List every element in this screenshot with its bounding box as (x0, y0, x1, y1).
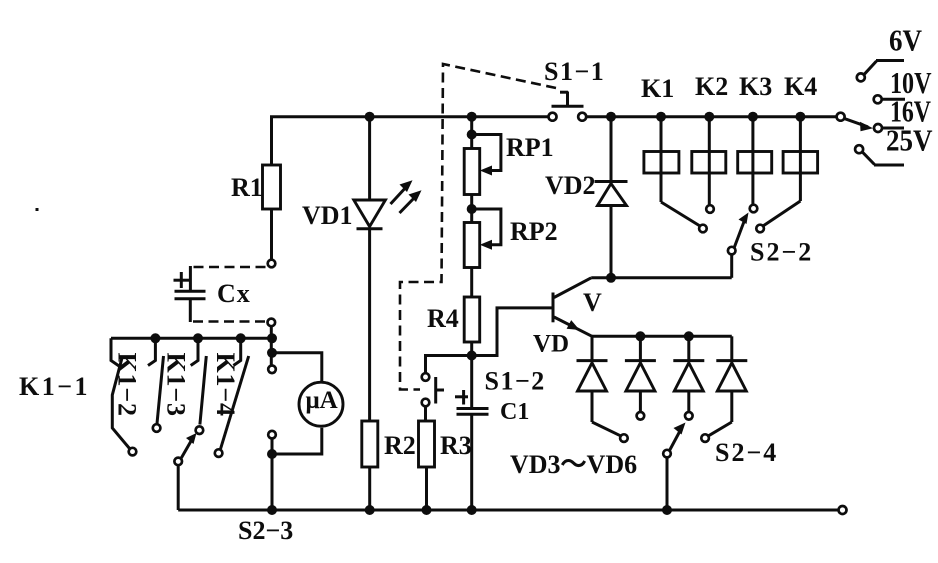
diode VD4 (625, 336, 656, 419)
svg-text:S1−2: S1−2 (485, 367, 546, 396)
svg-text:R2: R2 (384, 431, 416, 460)
svg-text:K4: K4 (784, 72, 817, 101)
switch S2-3 (174, 433, 196, 510)
node VD5 top (684, 331, 694, 341)
diode VD5 (673, 336, 704, 419)
node bottom R2 (365, 505, 375, 515)
svg-text:K1−3: K1−3 (162, 353, 191, 417)
wire collector net (591, 276, 732, 279)
node bank K1-4 (236, 333, 246, 343)
node bank K1-2 (150, 333, 160, 343)
svg-text:K3: K3 (739, 72, 772, 101)
relay coil K2 (692, 112, 726, 213)
node Cx lower terminal (268, 319, 276, 327)
resistor R3 (419, 421, 435, 510)
meter uA (272, 353, 343, 454)
transistor V (553, 278, 592, 337)
resistor R2 (362, 421, 378, 510)
wire Cx stub top (189, 266, 192, 291)
svg-text:S2−2: S2−2 (750, 238, 813, 267)
diode VD2 (595, 112, 628, 283)
contact 10V (874, 95, 905, 103)
wire dashed Cx link bottom (193, 320, 266, 323)
svg-text:V: V (583, 288, 602, 317)
svg-text:VD: VD (533, 331, 569, 358)
pushbutton S1-2 (422, 373, 444, 406)
svg-text:μA: μA (306, 387, 338, 414)
switch K1-3 (191, 338, 207, 434)
node bank right (267, 333, 277, 343)
svg-text:VD2: VD2 (545, 171, 596, 200)
svg-text:VD1: VD1 (302, 201, 353, 230)
node bottom R3 (422, 505, 432, 515)
node RP2 wiper tap (467, 204, 477, 214)
wire S1-2 to R3 (424, 406, 427, 421)
switch K1-4 (215, 338, 249, 457)
switch S2-4 (663, 423, 685, 511)
svg-text:K1−2: K1−2 (113, 353, 142, 417)
wire K1-1 bank bus (111, 337, 272, 340)
relay coil K3 (738, 112, 772, 213)
svg-text:RP1: RP1 (506, 133, 554, 162)
node bottom S2-4 (662, 505, 672, 515)
switch S2-2 (728, 213, 749, 278)
wire dashed gang link S1-1 to S1-2 (400, 64, 556, 390)
switch K1-1 (111, 338, 136, 455)
wire base network (472, 308, 552, 356)
capacitor Cx (174, 272, 206, 299)
wire top bus right (S1-1 right contact to selector) (586, 115, 836, 118)
wire meter column (267, 326, 277, 510)
LED VD1 (354, 112, 422, 421)
svg-text:RP2: RP2 (510, 217, 558, 246)
resistor R4 (464, 297, 480, 342)
svg-text:Cx: Cx (217, 279, 251, 308)
svg-text:R1: R1 (231, 173, 263, 202)
svg-text:S2−3: S2−3 (238, 516, 293, 545)
relay coil K4 (756, 112, 817, 233)
node bank K1-3 (193, 333, 203, 343)
svg-text:K1−1: K1−1 (19, 372, 90, 401)
node bottom terminal (839, 506, 847, 514)
resistor R1 (263, 165, 281, 267)
relay coil K1 (644, 112, 707, 233)
selector switch common (837, 113, 873, 132)
node bottom C1 (467, 505, 477, 515)
wire dashed Cx link top (193, 266, 266, 269)
svg-text:K2: K2 (695, 72, 728, 101)
pushbutton S1-1 (549, 92, 587, 121)
svg-text:C1: C1 (500, 399, 529, 425)
node RP1 wiper tap (467, 130, 477, 140)
svg-text:R4: R4 (427, 304, 459, 333)
svg-text:K1−4: K1−4 (211, 353, 240, 417)
wire top bus left (R1 corner to S1-1 left contact) (272, 117, 549, 165)
svg-text:S1−1: S1−1 (544, 57, 605, 86)
potentiometer RP1 (464, 135, 501, 195)
capacitor C1 (455, 356, 489, 511)
node VD4 top (635, 331, 645, 341)
potentiometer RP2 (464, 209, 501, 268)
contact 16V (874, 124, 904, 132)
node RP column top (467, 112, 477, 122)
wire emitter bus (592, 335, 732, 338)
svg-text:6V: 6V (889, 23, 923, 58)
switch K1-2 (148, 338, 164, 432)
svg-text:VD3～VD6: VD3～VD6 (510, 450, 637, 479)
diode VD6 (701, 336, 747, 442)
svg-text:S2−4: S2−4 (715, 438, 778, 467)
wire R4 to node (470, 342, 473, 356)
stray mark left (36, 208, 39, 211)
diode VD3 (577, 336, 628, 442)
svg-text:R3: R3 (440, 431, 472, 460)
node bottom meter column (267, 505, 277, 515)
wire RP1 to RP2 (470, 195, 473, 223)
contact 25V (855, 145, 904, 165)
contact 6V (857, 61, 904, 82)
wire Cx stub bottom (189, 299, 192, 322)
wire bottom bus (178, 509, 838, 512)
node below R4 (467, 351, 477, 361)
svg-text:K1: K1 (641, 74, 674, 103)
wire node to S1-2 (426, 356, 472, 374)
wire RP2 to R4 (470, 268, 473, 298)
wire RP column (470, 117, 473, 149)
svg-text:25V: 25V (886, 123, 933, 158)
